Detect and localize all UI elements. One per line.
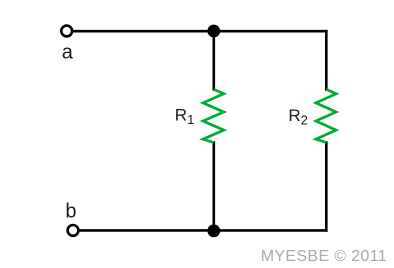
svg-text:b: b <box>65 200 76 222</box>
svg-text:a: a <box>62 42 74 64</box>
svg-text:MYESBE © 2011: MYESBE © 2011 <box>261 248 387 265</box>
